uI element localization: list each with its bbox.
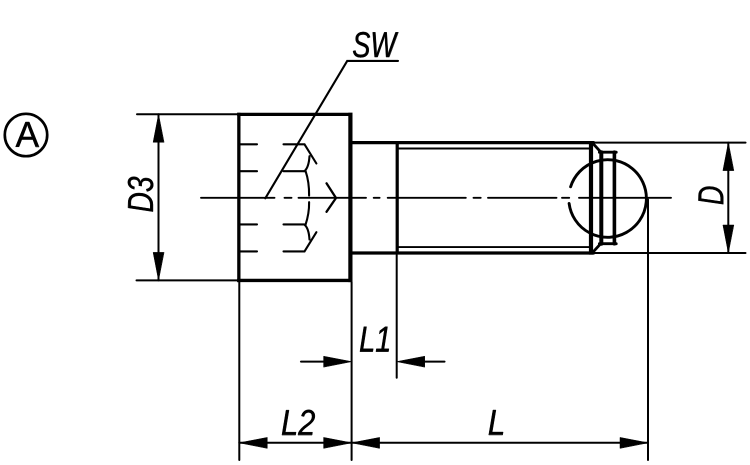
label L1 (360, 327, 389, 352)
neck and thread outer profile top (352, 141, 594, 144)
hex socket side lines (left stubs) (240, 144, 257, 251)
thread root line top (397, 148, 591, 150)
dimension L1 arrow left (324, 356, 352, 367)
thread end line (589, 141, 593, 255)
extension line below head left (238, 282, 240, 460)
chamfer top (593, 143, 601, 152)
chamfer bottom (593, 243, 601, 252)
view label circle A (5, 114, 47, 156)
label D3 (128, 177, 153, 212)
dimension D3 extension line bottom (137, 279, 241, 281)
neck and thread outer profile bottom (352, 251, 594, 254)
dimension L1 left tail (301, 361, 325, 363)
dimension L arrow right (620, 437, 648, 448)
dimension L1 arrow right (397, 356, 425, 367)
dimension D extension line bottom (594, 252, 746, 254)
screw head left edge (237, 113, 240, 282)
extension line below head right (351, 282, 353, 460)
label SW (353, 32, 398, 57)
dimension L2 arrow left (239, 437, 267, 448)
dimension line L2 and L (239, 442, 648, 444)
screw head right edge / shoulder face (348, 113, 352, 282)
dimension L arrow left (352, 437, 380, 448)
ball collar top and bottom edges (599, 152, 616, 244)
screw head top and bottom edges (237, 114, 352, 280)
extension line thread end of L1 (396, 255, 398, 378)
dimension D arrow bottom (723, 225, 734, 253)
hex socket local view (284, 144, 317, 251)
socket upper flat line (284, 170, 305, 172)
ball collar right edge (613, 152, 617, 244)
label D (699, 187, 724, 205)
socket upper corner arc (304, 156, 309, 171)
socket top chevron (284, 144, 317, 163)
dimension D3 extension line top (137, 113, 241, 115)
wrench direction arrow on centerline (327, 183, 337, 212)
SW leader line (265, 61, 398, 198)
label L (489, 410, 503, 435)
ball collar left edge (599, 152, 603, 244)
ball (569, 160, 646, 238)
dimension D3 arrow bottom (153, 252, 164, 280)
socket lower flat line (284, 223, 305, 225)
dimension L2 arrow right (324, 437, 352, 448)
view label letter A (16, 122, 39, 147)
dimension D3 arrow top (153, 114, 164, 142)
thread start line (396, 143, 399, 253)
socket central arc (306, 171, 310, 225)
dimension D line (727, 143, 729, 253)
dimension L1 right tail (425, 361, 445, 363)
dimension D extension line top (594, 142, 746, 144)
extension line ball tangent (647, 200, 649, 461)
label L2 (282, 410, 315, 435)
centerline (201, 197, 671, 199)
socket bottom chevron (284, 232, 317, 251)
thread root line bottom (397, 246, 591, 248)
dimension D3 line (158, 114, 160, 280)
socket lower corner arc (304, 225, 309, 240)
dimension D arrow top (723, 143, 734, 171)
